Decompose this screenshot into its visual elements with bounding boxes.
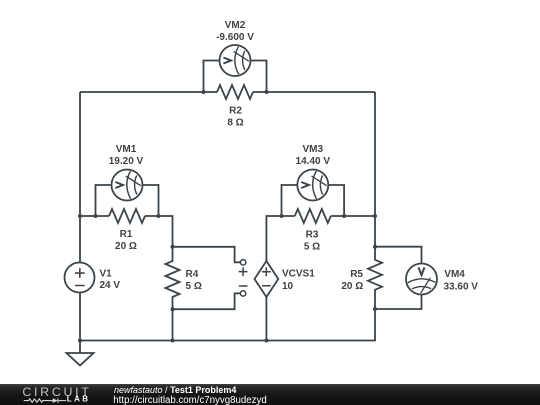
svg-text:8 Ω: 8 Ω [227, 118, 243, 129]
minus sign sense [239, 285, 248, 287]
svg-text:LAB: LAB [67, 395, 91, 404]
wire top rail [80, 91, 375, 93]
svg-text:20 Ω: 20 Ω [341, 281, 363, 292]
node dot bottom rail VCVS [265, 339, 269, 343]
wire R3 row [282, 215, 376, 217]
voltmeter VM3 [282, 170, 345, 217]
svg-text:R2: R2 [229, 106, 242, 117]
resistor R4 [166, 247, 180, 309]
node dot R4 bottom [171, 307, 175, 311]
node dot R4 top [171, 245, 175, 249]
voltmeter VM4 [406, 264, 437, 295]
node dot R5 bottom [373, 307, 377, 311]
node dot bottom rail left [78, 339, 82, 343]
svg-text:R3: R3 [306, 230, 319, 241]
svg-text:R4: R4 [186, 269, 199, 280]
node dot R1 right [157, 214, 161, 218]
dependent source VCVS1 [255, 261, 279, 297]
wire sense plus [173, 247, 241, 262]
node dot R2 left [202, 90, 206, 94]
wire VCVS bottom [265, 297, 267, 341]
node dot bottom rail R4 [171, 339, 175, 343]
svg-text:20 Ω: 20 Ω [115, 241, 137, 252]
voltmeter VM2 [204, 45, 267, 92]
footer bar [0, 384, 540, 405]
node dot R3 left [280, 214, 284, 218]
svg-text:14.40 V: 14.40 V [296, 156, 331, 167]
wire VM4 bridge [375, 247, 422, 309]
resistor R3 [295, 209, 331, 223]
node dot R3 right [342, 214, 346, 218]
terminal sense plus [240, 260, 245, 265]
resistor R2 [217, 85, 253, 99]
terminal sense minus [240, 291, 245, 296]
wire right rail [80, 92, 375, 341]
svg-text:V1: V1 [100, 268, 113, 279]
plus sign sense [239, 267, 248, 276]
wire left rail [79, 92, 81, 341]
svg-text:VM3: VM3 [303, 144, 324, 155]
resistor R5 [368, 247, 382, 309]
voltage source V1 [65, 263, 95, 293]
svg-text:33.60 V: 33.60 V [444, 281, 479, 292]
node dot left rail R1 [78, 214, 82, 218]
wire R1 row [80, 216, 173, 247]
node dot R2 right [265, 90, 269, 94]
svg-text:VM1: VM1 [116, 144, 137, 155]
svg-text:VM2: VM2 [225, 20, 246, 31]
svg-text:24 V: 24 V [100, 280, 121, 291]
svg-text:R5: R5 [350, 269, 363, 280]
wire sense minus [173, 293, 241, 309]
svg-text:R1: R1 [120, 229, 133, 240]
svg-text:VM4: VM4 [444, 269, 465, 280]
svg-text:19.20 V: 19.20 V [109, 156, 144, 167]
node dot right rail R3 [373, 214, 377, 218]
svg-text:5 Ω: 5 Ω [186, 281, 202, 292]
node dot R1 left [94, 214, 98, 218]
ground [67, 341, 94, 366]
wire VCVS top [266, 216, 281, 261]
svg-text:-9.600 V: -9.600 V [216, 32, 254, 43]
resistor R1 [109, 209, 145, 223]
svg-text:http://circuitlab.com/c7nyvg8u: http://circuitlab.com/c7nyvg8udezyd [113, 395, 266, 405]
svg-text:VCVS1: VCVS1 [282, 269, 315, 280]
svg-text:5 Ω: 5 Ω [304, 242, 320, 253]
wire R4 to bottom rail [172, 309, 174, 340]
voltmeter VM1 [96, 170, 159, 217]
svg-text:newfastauto / Test1 Problem4: newfastauto / Test1 Problem4 [114, 385, 236, 395]
svg-text:10: 10 [282, 281, 294, 292]
node dot R5 top [373, 245, 377, 249]
